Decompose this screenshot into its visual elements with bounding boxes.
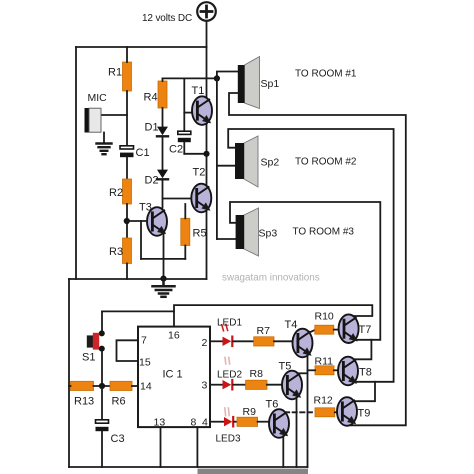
speaker Sp2 xyxy=(235,136,258,187)
transistor T2 xyxy=(191,184,211,213)
wire top rail xyxy=(76,46,207,48)
node S1 top xyxy=(99,330,105,336)
speaker Sp3 xyxy=(236,208,259,256)
ground (main) xyxy=(153,279,175,297)
capacitor C1 xyxy=(120,146,134,157)
svg-text:LED3: LED3 xyxy=(216,434,241,445)
transistor T5 xyxy=(282,371,302,400)
wire Sp2 bottom terminal xyxy=(217,165,235,167)
svg-text:T6: T6 xyxy=(266,399,279,411)
wire mic to column xyxy=(101,114,127,116)
svg-text:D1: D1 xyxy=(145,122,159,134)
svg-text:16: 16 xyxy=(168,330,180,342)
wire left rail xyxy=(75,47,77,279)
wire D1 to D2 xyxy=(162,136,164,170)
wire rail to R13 xyxy=(69,385,71,387)
wire Sp3 bottom terminal xyxy=(217,238,236,240)
svg-text:R2: R2 xyxy=(109,187,123,199)
wire T8 emitter branch to T9 collector xyxy=(355,382,376,401)
diode D2 xyxy=(157,170,168,180)
svg-text:T8: T8 xyxy=(359,367,372,379)
wire LED3 to R9 xyxy=(234,421,237,423)
svg-text:R8: R8 xyxy=(250,368,264,380)
wire R4 to D1 xyxy=(162,108,164,127)
supply symbol +12V xyxy=(197,2,216,21)
svg-text:T7: T7 xyxy=(359,324,372,336)
svg-text:TO ROOM #2: TO ROOM #2 xyxy=(295,157,357,168)
transistor T4 xyxy=(293,329,313,358)
wire T3 emitter to bus xyxy=(163,233,165,278)
transistor T6 xyxy=(269,409,289,438)
wire rail to R1 xyxy=(126,47,128,62)
wire room3 loop Sp3 to T7 emitter xyxy=(230,202,380,340)
svg-text:R10: R10 xyxy=(315,311,334,323)
wire mic to ground xyxy=(103,133,105,143)
transistor T8 xyxy=(338,357,358,386)
wire T6 emitter drop xyxy=(282,436,284,467)
wire R1 to C1 xyxy=(126,91,128,146)
resistor R8 xyxy=(246,380,267,389)
wire R8 to T5 base xyxy=(267,384,283,386)
svg-text:R13: R13 xyxy=(74,396,94,408)
svg-text:Sp2: Sp2 xyxy=(261,157,280,169)
ground (mic) xyxy=(97,144,112,155)
svg-text:14: 14 xyxy=(140,381,152,393)
wire node to R11 xyxy=(308,369,316,371)
wire T4 collector to R10 xyxy=(310,330,315,333)
capacitor C3 xyxy=(96,420,109,431)
node T1/T2 rail xyxy=(203,151,209,157)
transistor T3 xyxy=(147,207,167,236)
wire S1 top line xyxy=(102,310,174,312)
wire rail to T1 collector xyxy=(206,47,208,98)
wire T1 base xyxy=(184,112,192,114)
wire LED1 to R7 xyxy=(233,340,253,342)
svg-text:R12: R12 xyxy=(314,395,333,407)
wire pin4 to LED3 xyxy=(210,421,224,423)
wire R6 to pin14 xyxy=(132,385,138,387)
svg-text:12 volts DC: 12 volts DC xyxy=(142,13,192,24)
wire pin13 to bus xyxy=(160,427,162,467)
node ground bus xyxy=(160,276,166,282)
resistor R12 xyxy=(315,408,335,417)
wire R5 top xyxy=(184,204,186,218)
svg-text:R9: R9 xyxy=(243,406,257,418)
wire junction to C3 xyxy=(101,386,103,420)
node R2/R3/T3 xyxy=(124,218,130,224)
wire T1 emitter to T2 collector xyxy=(206,124,208,187)
svg-text:R11: R11 xyxy=(315,356,334,368)
svg-text:2: 2 xyxy=(202,337,208,349)
wire pin3 to LED2 xyxy=(210,384,223,386)
svg-text:swagatam innovations: swagatam innovations xyxy=(222,273,320,284)
wire speaker feed column xyxy=(216,78,218,239)
svg-text:MIC: MIC xyxy=(88,92,108,104)
svg-text:T5: T5 xyxy=(279,361,292,373)
wire room2 loop Sp2 to T8 emitter xyxy=(228,129,393,382)
wire C3 to bottom bus xyxy=(101,431,103,467)
wire C2 to rail node xyxy=(183,142,185,154)
resistor R13 xyxy=(71,381,94,390)
wire R13 to R6 xyxy=(94,385,111,387)
svg-text:TO ROOM #3: TO ROOM #3 xyxy=(293,227,355,238)
gray bottom strip xyxy=(198,469,309,474)
wire bottom bus xyxy=(69,466,308,468)
resistor R3 xyxy=(123,238,132,264)
resistor R7 xyxy=(254,337,274,346)
transistor T1 xyxy=(192,96,212,125)
wire R10 to T7 base xyxy=(334,329,339,331)
transistor T7 xyxy=(339,314,359,343)
svg-text:C1: C1 xyxy=(136,147,150,159)
wire R3 to bus xyxy=(126,264,128,280)
transistor T9 xyxy=(337,397,357,426)
wire T3 base branch down xyxy=(140,221,142,259)
svg-text:8: 8 xyxy=(191,417,197,429)
wire R7 to T4 base xyxy=(274,340,293,342)
wire ground bus xyxy=(69,278,207,280)
svg-text:T4: T4 xyxy=(285,319,298,331)
wire R4 top rail to speaker node xyxy=(163,77,217,79)
diode D1 xyxy=(157,127,168,137)
svg-text:7: 7 xyxy=(141,335,147,347)
svg-text:13: 13 xyxy=(154,417,166,429)
wire T5 collector link xyxy=(298,372,308,374)
svg-text:R5: R5 xyxy=(193,228,207,240)
svg-text:LED1: LED1 xyxy=(217,318,242,329)
resistor R6 xyxy=(110,381,132,390)
speaker Sp1 xyxy=(238,57,260,109)
LED2 xyxy=(223,357,233,389)
svg-text:R4: R4 xyxy=(144,92,158,104)
microphone MIC xyxy=(85,108,102,133)
node R13/R6/S1/C3 xyxy=(99,383,105,389)
wire T5 emitter drop xyxy=(296,398,298,468)
wire pin7 to pin15 loop xyxy=(117,340,139,361)
wire branch to R5 bottom xyxy=(141,258,185,260)
resistor R2 xyxy=(123,179,132,204)
wire branch to C2 xyxy=(183,78,185,131)
wire T7 emitter branch to T8 collector xyxy=(355,340,371,360)
svg-text:3: 3 xyxy=(202,380,208,392)
wire Sp1 top terminal xyxy=(217,72,238,79)
wire T3 base xyxy=(127,220,147,222)
wire room1 loop Sp1 to T9 emitter xyxy=(229,93,406,425)
wire D2 to T3 collector xyxy=(162,179,164,208)
wire LED2 to R8 xyxy=(233,384,245,386)
svg-text:Sp1: Sp1 xyxy=(261,78,280,90)
wire lower-left rail xyxy=(68,279,70,467)
resistor R10 xyxy=(315,325,334,334)
resistor R1 xyxy=(123,62,132,91)
svg-text:Sp3: Sp3 xyxy=(259,228,278,240)
svg-text:C2: C2 xyxy=(169,144,183,156)
wire R12 to T9 base xyxy=(335,411,337,413)
svg-text:R6: R6 xyxy=(112,396,126,408)
wire pin2 to LED1 xyxy=(210,340,223,342)
switch S1 xyxy=(87,333,99,350)
LED1 xyxy=(222,324,233,346)
IC U1 box xyxy=(138,327,210,428)
svg-text:S1: S1 xyxy=(82,352,95,364)
resistor R11 xyxy=(315,366,334,375)
svg-text:D2: D2 xyxy=(145,175,159,187)
wire R5 bottom xyxy=(184,246,186,259)
wire R2 to node xyxy=(126,204,128,238)
svg-text:R7: R7 xyxy=(257,325,271,337)
svg-text:15: 15 xyxy=(139,357,151,369)
capacitor C2 xyxy=(178,131,191,142)
wire C1 to R2 xyxy=(126,157,128,179)
svg-text:TO ROOM #1: TO ROOM #1 xyxy=(295,69,357,80)
svg-text:IC 1: IC 1 xyxy=(163,369,183,381)
wire T2 to ground bus xyxy=(206,210,208,279)
node speaker feed xyxy=(214,75,220,81)
LED3 xyxy=(224,408,233,426)
wire T6 collector dashed to R12 xyxy=(285,411,315,413)
svg-text:R1: R1 xyxy=(108,67,122,79)
svg-text:T9: T9 xyxy=(358,408,371,420)
wire supply stub xyxy=(206,21,208,47)
resistor R4 xyxy=(158,81,167,108)
wire T2 base xyxy=(163,198,192,200)
svg-text:LED2: LED2 xyxy=(217,370,242,381)
wire R9 to T6 base xyxy=(258,421,270,423)
wire S1 to R13/R6 junction xyxy=(101,351,103,386)
resistor R9 xyxy=(237,417,258,426)
svg-text:4: 4 xyxy=(202,417,208,429)
wire S1 upper stub xyxy=(101,311,103,331)
wire T4 emitter drop xyxy=(307,355,309,467)
svg-text:R3: R3 xyxy=(109,246,123,258)
svg-text:T3: T3 xyxy=(139,202,152,214)
svg-text:T1: T1 xyxy=(192,85,205,97)
wire T7 collector loop to pin16 xyxy=(174,305,372,327)
resistor R5 xyxy=(181,218,190,245)
svg-text:T2: T2 xyxy=(193,167,206,179)
node S1 bottom xyxy=(99,346,105,352)
wire pin8 to bus xyxy=(196,427,198,467)
svg-text:C3: C3 xyxy=(111,433,125,445)
wire R11 to T8 base xyxy=(334,369,338,371)
